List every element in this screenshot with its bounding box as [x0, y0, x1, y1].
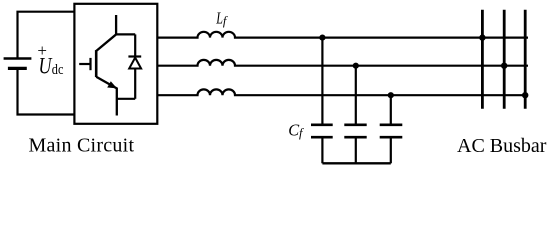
IGBT Q1 emitter lead	[96, 77, 117, 116]
battery source short plate (-)	[8, 67, 27, 70]
IGBT Q1 gate lead	[79, 63, 90, 65]
diode D1 top lead	[134, 34, 136, 56]
label C_f	[288, 120, 304, 140]
wire capacitor B to common bar	[355, 137, 357, 163]
wire capacitor A to common bar	[321, 137, 323, 163]
capacitor Cf3 bottom plate	[380, 136, 403, 139]
IGBT Q1 body bar	[95, 50, 98, 77]
svg-text:dc: dc	[52, 61, 64, 77]
AC busbar phase C bar	[524, 10, 527, 109]
wire phase B with inductor Lf2	[157, 60, 528, 66]
wire capacitor common bar	[322, 162, 390, 164]
IGBT Q1 emitter arrowhead	[107, 81, 117, 88]
inverter box (Main Circuit)	[74, 4, 157, 124]
battery source long plate (+)	[4, 57, 32, 60]
diode D1 cathode bar	[128, 55, 141, 57]
wire phase A with inductor Lf1	[157, 32, 528, 38]
capacitor Cf1 top plate	[311, 124, 333, 127]
wire phase C with inductor Lf3	[157, 89, 528, 95]
busbar junction dot phase C	[522, 92, 528, 98]
capacitor Cf3 top plate	[380, 124, 403, 127]
diode D1 triangle	[129, 58, 141, 69]
label L_f	[215, 10, 228, 28]
svg-text:AC Busbar: AC Busbar	[457, 135, 547, 157]
node A junction dot	[319, 35, 325, 41]
diode D1 bottom lead	[134, 69, 136, 99]
node B junction dot	[353, 63, 359, 69]
wire capacitor drop C	[390, 95, 392, 125]
svg-text:L: L	[215, 10, 223, 28]
wire battery top	[18, 12, 75, 59]
svg-text:f: f	[299, 126, 304, 140]
capacitor Cf1 bottom plate	[311, 136, 333, 139]
node C junction dot	[388, 92, 394, 98]
AC busbar phase A bar	[481, 10, 484, 109]
wire capacitor drop A	[321, 38, 323, 125]
wire capacitor drop B	[355, 66, 357, 125]
wire top node	[116, 33, 135, 35]
wire capacitor C to common bar	[390, 137, 392, 163]
AC busbar phase B bar	[503, 10, 506, 109]
svg-text:U: U	[39, 55, 53, 80]
wire battery bottom	[18, 68, 75, 114]
svg-text:Main Circuit: Main Circuit	[29, 135, 135, 157]
IGBT Q1 gate bar	[89, 58, 91, 70]
IGBT Q1 collector lead	[96, 15, 116, 51]
busbar junction dot phase A	[479, 34, 485, 40]
wire bottom node	[117, 98, 135, 100]
capacitor Cf2 top plate	[344, 124, 366, 127]
capacitor Cf2 bottom plate	[344, 136, 366, 139]
label U_dc	[39, 55, 64, 80]
svg-text:f: f	[223, 14, 228, 28]
busbar junction dot phase B	[501, 62, 507, 68]
